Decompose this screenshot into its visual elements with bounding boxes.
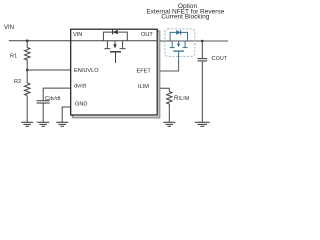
junction VIN/R1 xyxy=(26,39,29,42)
external NFET drain/source drops xyxy=(170,41,188,48)
wire EN/UVLO xyxy=(27,69,70,71)
wire R1 top lead xyxy=(26,41,28,48)
wire internal VIN-OUT rail xyxy=(71,40,157,42)
external NFET Q1 body diode loop xyxy=(170,32,187,41)
IC box U1 xyxy=(71,29,158,115)
wire COUT top lead xyxy=(201,41,203,59)
wire RILIM bottom lead xyxy=(168,104,170,122)
external NFET body arrow xyxy=(178,41,180,44)
ground R2 xyxy=(21,122,33,126)
wire OUT to dashed box and through xyxy=(160,40,228,42)
svg-text:OUT: OUT xyxy=(141,32,153,38)
svg-text:R1: R1 xyxy=(10,54,17,60)
dashed option box xyxy=(165,29,195,57)
capacitor COUT xyxy=(198,58,208,60)
capacitor Cdvdt xyxy=(37,100,50,102)
internal FET gate xyxy=(110,51,121,53)
ground GND pin xyxy=(56,122,68,126)
ground RILIM xyxy=(163,122,175,126)
wire EFET pin to external gate xyxy=(160,62,179,72)
svg-text:VIN: VIN xyxy=(73,32,82,38)
title text: Option / External NFET for Reverse / Current Blocking xyxy=(146,3,224,21)
svg-text:GND: GND xyxy=(75,102,87,108)
internal FET body arrow xyxy=(114,41,116,45)
junction OUT/COUT xyxy=(201,40,204,43)
ground COUT xyxy=(195,122,210,126)
external body diode xyxy=(176,30,181,35)
svg-text:EN/UVLO: EN/UVLO xyxy=(74,68,99,74)
wire R2 top lead xyxy=(26,70,28,83)
wire GND pin xyxy=(62,107,70,122)
wire R1 bottom lead xyxy=(26,60,28,70)
svg-text:RILIM: RILIM xyxy=(174,96,189,102)
svg-text:Current Blocking: Current Blocking xyxy=(161,14,209,21)
svg-text:COUT: COUT xyxy=(212,56,228,62)
wire Cdvdt bottom lead xyxy=(42,103,44,122)
resistor R1 xyxy=(25,48,31,61)
IC box shadow xyxy=(73,31,160,117)
internal FET drain/source drops xyxy=(104,41,125,49)
junction R1/R2/EN xyxy=(26,69,29,72)
svg-text:VIN: VIN xyxy=(4,25,14,31)
internal body diode xyxy=(112,30,114,35)
wire ILIM pin xyxy=(160,88,170,91)
svg-text:ILIM: ILIM xyxy=(138,84,149,90)
external NFET gate xyxy=(173,50,184,52)
svg-text:dv/dt: dv/dt xyxy=(74,83,87,89)
ground Cdvdt xyxy=(37,122,49,126)
wire COUT bottom lead xyxy=(201,61,203,122)
resistor R2 xyxy=(25,83,31,96)
resistor RILIM xyxy=(167,92,172,105)
wire R2 bottom lead xyxy=(26,96,28,123)
svg-text:Cdv/dt: Cdv/dt xyxy=(45,96,61,102)
svg-text:EFET: EFET xyxy=(137,68,152,74)
wire dv/dt pin xyxy=(43,88,70,100)
svg-text:R2: R2 xyxy=(14,79,21,85)
internal FET Q-int body diode loop xyxy=(103,32,127,41)
wire VIN input xyxy=(9,40,71,42)
